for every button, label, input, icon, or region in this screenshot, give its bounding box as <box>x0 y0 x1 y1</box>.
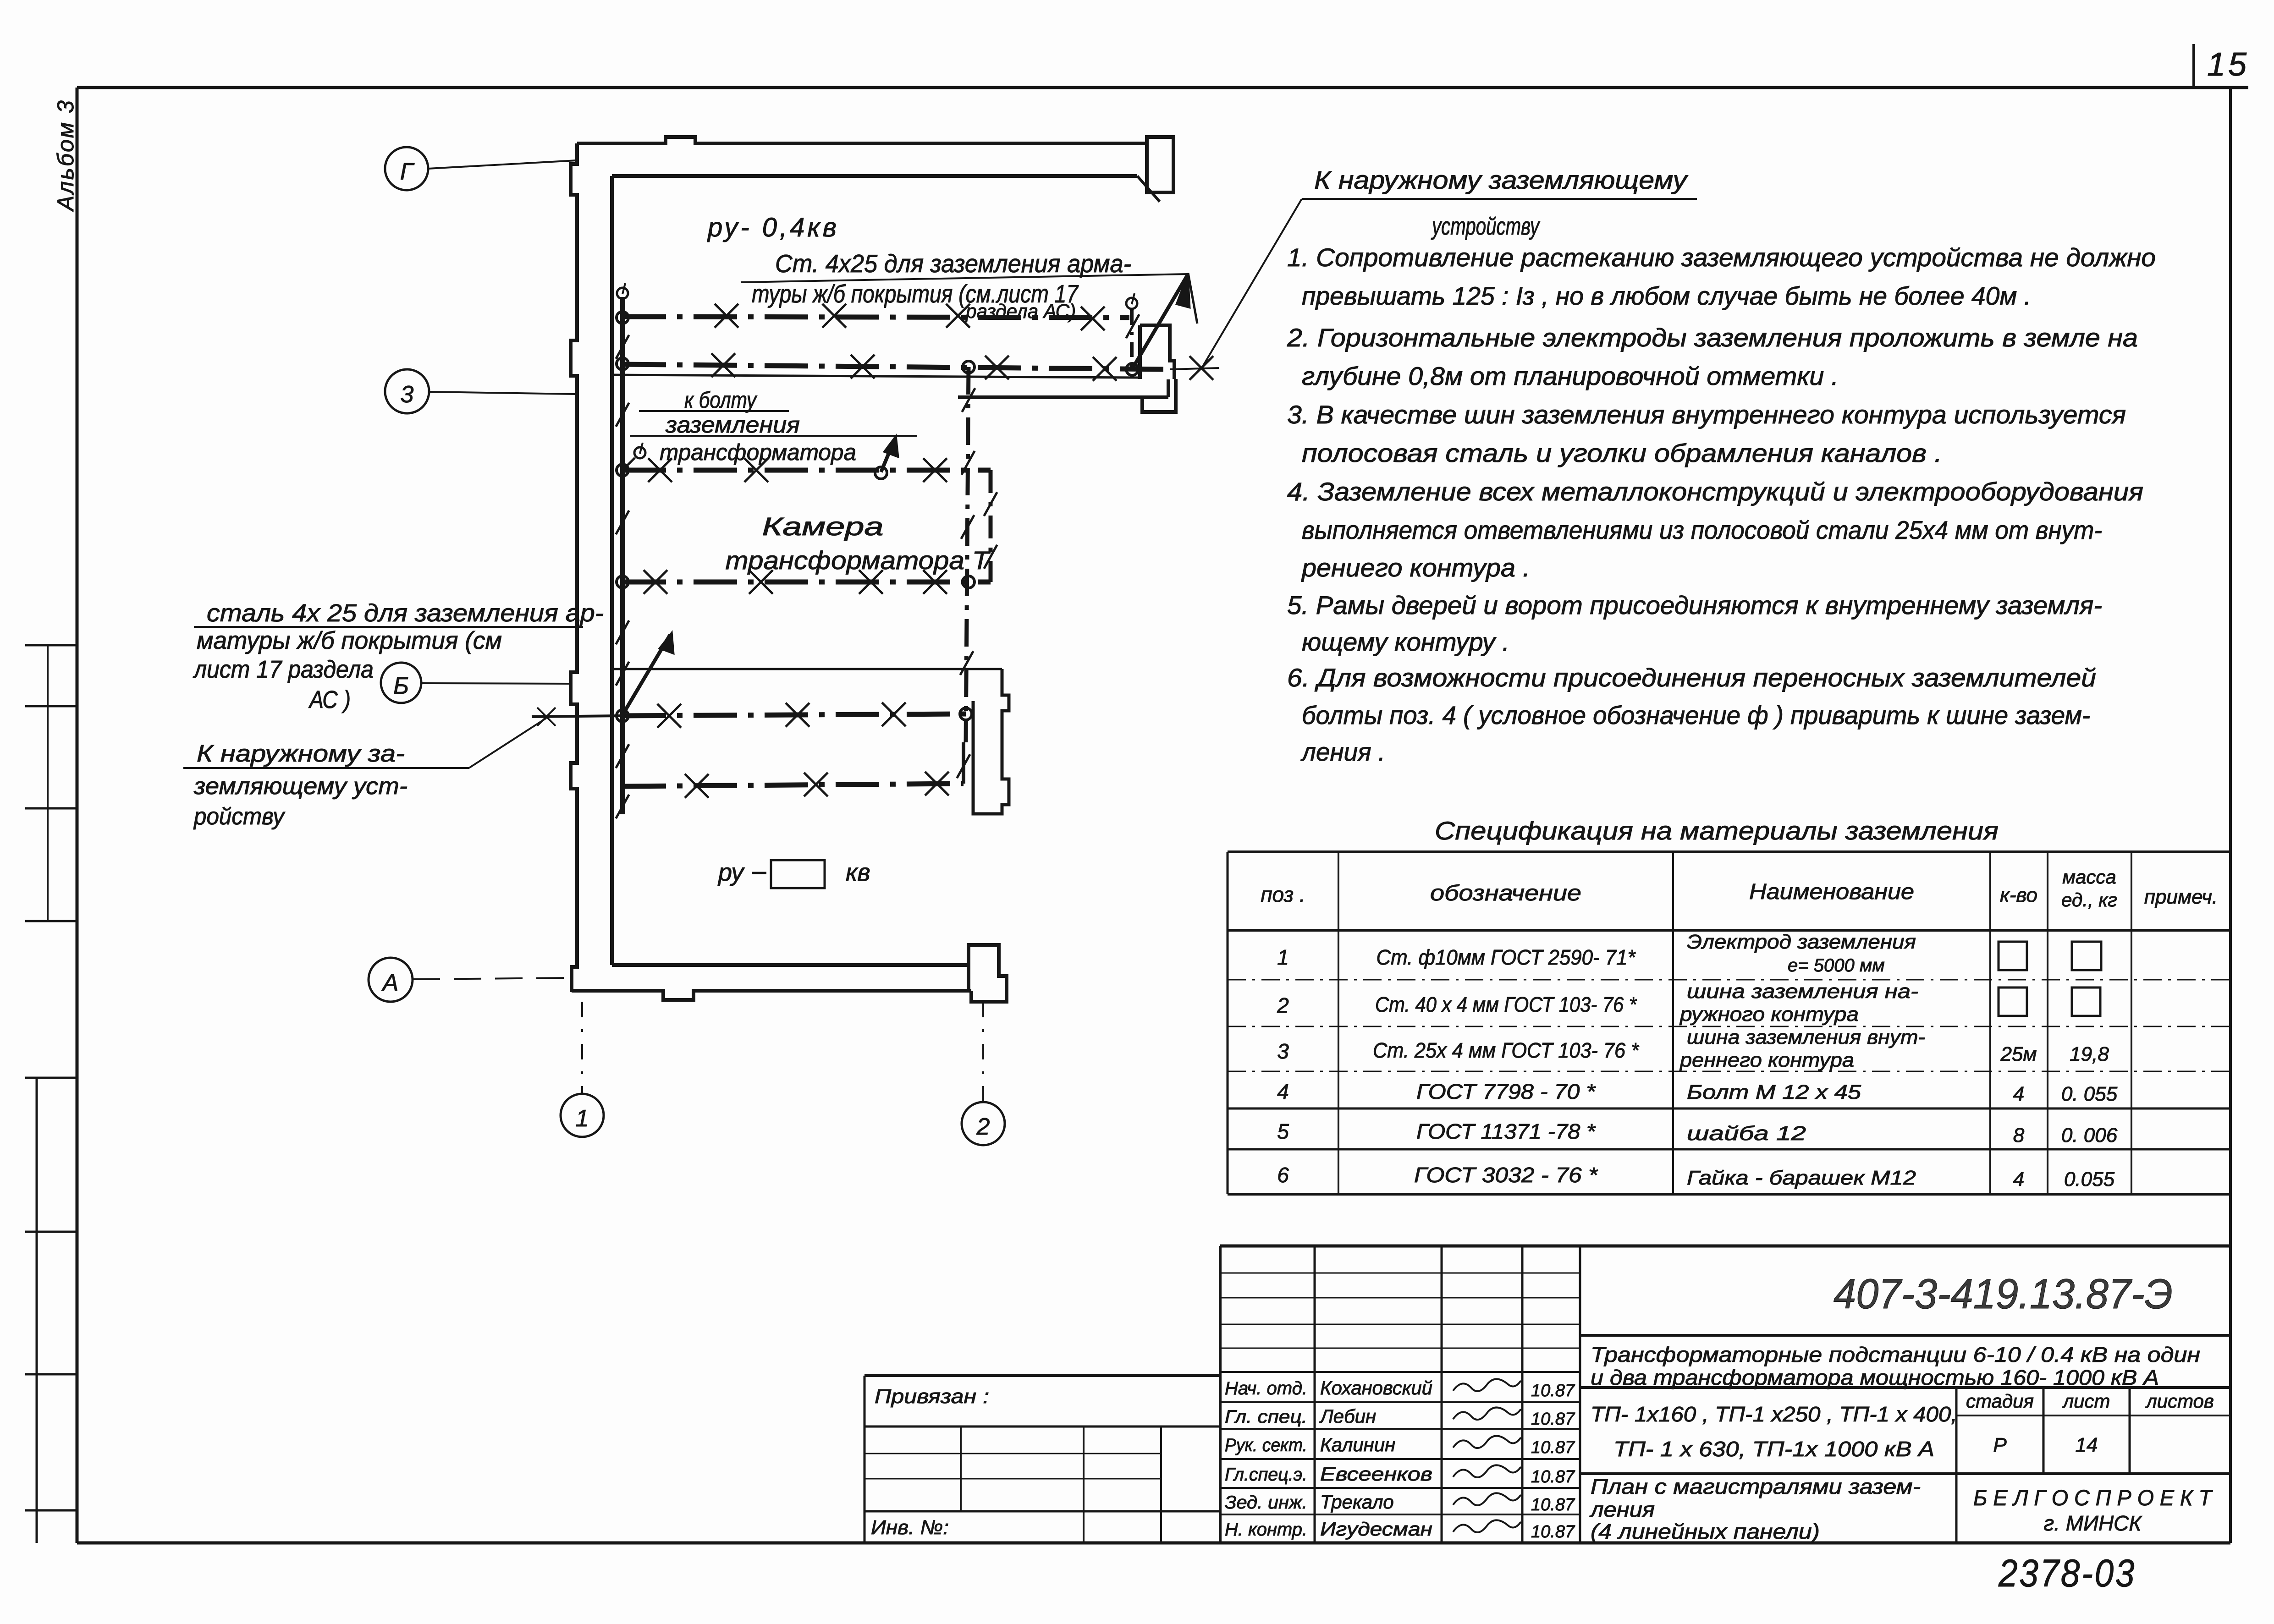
svg-text:ГОСТ 11371 -78 *: ГОСТ 11371 -78 * <box>1416 1119 1596 1143</box>
svg-text:обозначение: обозначение <box>1430 881 1581 905</box>
svg-text:заземления: заземления <box>665 412 800 438</box>
svg-text:407-3-419.13.87-Э: 407-3-419.13.87-Э <box>1834 1271 2173 1317</box>
bolt symbol at R1 right end <box>1126 293 1137 309</box>
svg-text:глубине 0,8м от планировочно: глубине 0,8м от планировочной отметки . <box>1302 362 1839 390</box>
svg-text:Привязан :: Привязан : <box>875 1385 989 1408</box>
svg-text:ройству: ройству <box>193 803 286 830</box>
svg-text:поз .: поз . <box>1261 883 1305 906</box>
svg-text:0.055: 0.055 <box>2064 1168 2115 1191</box>
svg-text:листов: листов <box>2145 1390 2214 1412</box>
svg-text:Ст. 4х25 для заземления арма-: Ст. 4х25 для заземления арма- <box>775 249 1131 278</box>
svg-text:матуры ж/б покрытия (см: матуры ж/б покрытия (см <box>197 627 502 654</box>
svg-text:Гл.спец.э.: Гл.спец.э. <box>1225 1465 1307 1485</box>
note line 12 <box>1287 663 2096 692</box>
svg-text:2. Горизонтальные электроды: 2. Горизонтальные электроды заземления п… <box>1287 323 2138 352</box>
svg-text:Трекало: Трекало <box>1320 1491 1394 1513</box>
svg-text:10.87: 10.87 <box>1531 1410 1575 1429</box>
svg-text:ления .: ления . <box>1300 737 1385 766</box>
svg-text:полосовая сталь и уголки об: полосовая сталь и уголки обрамления кана… <box>1302 439 1942 467</box>
spec row 1 <box>1277 931 2101 976</box>
wall: right wing bottom outer <box>958 379 1168 397</box>
wall: left inner <box>610 176 614 965</box>
note line 11 <box>1302 627 1509 656</box>
spec row 5 <box>1277 1119 2117 1147</box>
label к наружному заземляющему устройству (top right) <box>1201 165 1697 369</box>
note line 2 <box>1302 281 2031 310</box>
svg-text:ру- 0,4кв: ру- 0,4кв <box>707 213 839 242</box>
organization <box>1973 1486 2213 1535</box>
svg-text:ружного контура: ружного контура <box>1679 1003 1859 1026</box>
svg-text:шина заземления на-: шина заземления на- <box>1687 980 1918 1003</box>
label steel 4x25 (left) <box>193 599 604 713</box>
wall: RU room bottom partition <box>612 375 1140 378</box>
axis leader Б <box>421 683 573 684</box>
spec table grid <box>1228 852 2230 1194</box>
svg-text:План с магистралями зазем-: План с магистралями зазем- <box>1591 1475 1921 1498</box>
note line 3 <box>1287 323 2138 352</box>
wall: bottom-right pilaster <box>969 945 1007 1002</box>
svg-text:Зед. инж.: Зед. инж. <box>1225 1492 1307 1513</box>
axis leader З <box>429 392 575 394</box>
svg-text:ления: ления <box>1589 1498 1655 1521</box>
svg-text:10.87: 10.87 <box>1531 1495 1575 1514</box>
wall: bottom outer with bump <box>572 991 971 1000</box>
svg-text:Р: Р <box>1993 1434 2007 1456</box>
svg-text:Ст. 25х 4 мм ГОСТ 103- 76 *: Ст. 25х 4 мм ГОСТ 103- 76 * <box>1373 1038 1640 1062</box>
svg-text:Нач. отд.: Нач. отд. <box>1225 1378 1307 1399</box>
svg-text:Калинин: Калинин <box>1320 1434 1395 1455</box>
note line 5 <box>1287 400 2126 429</box>
label РУ-[] кВ (bottom) <box>717 859 870 888</box>
branch arrow to slab reinforcement (left) <box>622 632 674 716</box>
wall: right wing end box <box>1140 325 1174 379</box>
svg-text:рениего контура .: рениего контура . <box>1301 553 1530 582</box>
svg-text:1: 1 <box>576 1105 589 1132</box>
svg-text:стадия: стадия <box>1966 1390 2034 1412</box>
svg-text:ГОСТ 7798 - 70 *: ГОСТ 7798 - 70 * <box>1416 1080 1596 1103</box>
label Камера трансформатора Т <box>726 512 991 575</box>
title text TP list <box>1591 1402 1957 1461</box>
axis circle Г <box>385 147 428 190</box>
svg-text:3: 3 <box>401 381 414 408</box>
svg-text:кв: кв <box>846 859 870 886</box>
page number tick <box>2192 44 2195 88</box>
svg-text:2378-03: 2378-03 <box>1998 1552 2136 1595</box>
bolt symbol near transformer bolt label <box>622 443 645 470</box>
note line 13 <box>1302 701 2090 730</box>
svg-text:10.87: 10.87 <box>1531 1522 1575 1542</box>
svg-text:к-во: к-во <box>2000 884 2037 906</box>
wall: bottom inner <box>612 963 969 967</box>
axis leader А <box>413 978 571 979</box>
wall: lower room right wall with bumps <box>973 669 1009 814</box>
svg-text:(4 линейных панели): (4 линейных панели) <box>1591 1520 1820 1543</box>
svg-text:болты поз. 4 ( условное обо: болты поз. 4 ( условное обозначение ф ) … <box>1302 701 2090 730</box>
title block row Зед. инж. <box>1225 1491 1575 1514</box>
svg-text:4: 4 <box>1277 1080 1289 1103</box>
svg-text:Камера: Камера <box>762 512 884 541</box>
left margin column <box>25 645 77 1543</box>
svg-text:лист 17 раздела: лист 17 раздела <box>193 656 374 683</box>
spec row 3 <box>1277 1026 2109 1071</box>
svg-text:10.87: 10.87 <box>1531 1381 1575 1400</box>
svg-text:К наружному за-: К наружному за- <box>197 741 405 767</box>
ground bus R3 (chamber top) <box>617 458 991 482</box>
ground bus R1 (horizontal) <box>617 304 1129 330</box>
svg-text:8: 8 <box>2013 1124 2025 1147</box>
spec table title <box>1435 816 1999 845</box>
label к наружному (left) <box>183 718 546 830</box>
svg-text:10.87: 10.87 <box>1531 1438 1575 1457</box>
svg-text:Кохановский: Кохановский <box>1320 1377 1432 1399</box>
svg-text:Трансформаторные подстанции: Трансформаторные подстанции 6-10 / 0.4 к… <box>1591 1343 2200 1366</box>
svg-text:Лебин: Лебин <box>1319 1405 1376 1427</box>
svg-text:Электрод заземления: Электрод заземления <box>1687 931 1916 953</box>
svg-text:Ст. ф10мм ГОСТ 2590- 71*: Ст. ф10мм ГОСТ 2590- 71* <box>1377 945 1636 969</box>
svg-text:трансформатора Т: трансформатора Т <box>726 546 991 575</box>
svg-text:ТП- 1 х 630, ТП-1х 1000 кВ: ТП- 1 х 630, ТП-1х 1000 кВ А <box>1613 1437 1934 1461</box>
bus riser VL (left vertical) <box>616 297 629 818</box>
svg-text:Гайка - барашек М12: Гайка - барашек М12 <box>1687 1167 1916 1189</box>
svg-text:3: 3 <box>1277 1039 1289 1063</box>
axis circle 2 <box>962 1102 1005 1145</box>
ground bus R5 (horizontal, to external left) <box>617 702 972 728</box>
axis circle З <box>385 369 429 413</box>
wall: left outer with pilaster bumps <box>571 143 577 992</box>
svg-text:4. Заземление всех металлок: 4. Заземление всех металлоконструкций и … <box>1287 477 2143 506</box>
svg-text:19,8: 19,8 <box>2070 1043 2109 1065</box>
svg-text:1: 1 <box>1277 945 1289 969</box>
wall: top-right pilaster <box>1147 137 1173 192</box>
svg-text:к болту: к болту <box>684 387 758 413</box>
svg-text:реннего контура: реннего контура <box>1679 1049 1854 1071</box>
label РУ-0,4кВ <box>707 213 839 242</box>
bus riser V2 (chamber right) <box>984 470 997 582</box>
svg-text:выполняется ответвлениями из: выполняется ответвлениями из полосовой с… <box>1302 516 2102 544</box>
page number 15 <box>2207 46 2249 83</box>
svg-text:10.87: 10.87 <box>1531 1467 1575 1487</box>
title block row Гл.спец.э. <box>1225 1463 1575 1487</box>
svg-text:трансформатора: трансформатора <box>660 439 856 465</box>
title block row Гл. спец. <box>1225 1405 1575 1429</box>
archive number 2378-03 <box>1998 1552 2136 1595</box>
axis circle 1 <box>561 1094 604 1137</box>
axis circle Б <box>381 663 421 703</box>
svg-text:лист: лист <box>2061 1390 2110 1412</box>
title block grid <box>1220 1246 2230 1543</box>
svg-text:Н. контр.: Н. контр. <box>1225 1520 1307 1540</box>
spec table header <box>1261 866 2218 911</box>
stage/sheet header <box>1966 1390 2214 1456</box>
svg-text:Г: Г <box>400 159 415 185</box>
axis line 2 <box>982 1002 984 1102</box>
svg-text:0. 055: 0. 055 <box>2061 1083 2118 1105</box>
note line 8 <box>1302 516 2102 544</box>
axis leader Г <box>428 160 577 169</box>
svg-text:2: 2 <box>976 1114 990 1140</box>
note line 7 <box>1287 477 2143 506</box>
branch arrow to transformer bolt <box>875 435 898 479</box>
svg-text:e= 5000 мм: e= 5000 мм <box>1788 955 1885 976</box>
ground bus R6 (bottom room) <box>622 742 970 798</box>
svg-text:Б Е Л Г О С П Р О Е К Т: Б Е Л Г О С П Р О Е К Т <box>1973 1486 2213 1510</box>
svg-text:ТП- 1х160 , ТП-1 х250 , ТП-1: ТП- 1х160 , ТП-1 х250 , ТП-1 х 400, <box>1591 1402 1957 1426</box>
svg-text:земляющему уст-: земляющему уст- <box>193 773 407 800</box>
ground bus R2 (horizontal, to external) <box>617 353 1219 381</box>
album label (rotated) <box>53 99 78 212</box>
bolt symbol at VL top <box>617 283 628 299</box>
svg-text:устройству: устройству <box>1431 213 1540 240</box>
svg-text:К наружному заземляющему: К наружному заземляющему <box>1314 165 1688 194</box>
svg-text:25м: 25м <box>2000 1043 2037 1065</box>
note line 6 <box>1302 439 1942 467</box>
svg-text:4: 4 <box>2013 1083 2024 1105</box>
note line 14 <box>1300 737 1385 766</box>
spec row 6 <box>1277 1163 2114 1191</box>
title text object <box>1591 1343 2200 1389</box>
svg-text:г. МИНСК: г. МИНСК <box>2043 1511 2142 1535</box>
svg-text:Ст. 40 х 4 мм ГОСТ 103- 76 *: Ст. 40 х 4 мм ГОСТ 103- 76 * <box>1375 993 1637 1016</box>
axis circle А <box>369 958 413 1002</box>
title block row Нач. отд. <box>1225 1377 1575 1400</box>
bus riser VR (right vertical) <box>960 367 975 742</box>
spec row 2 <box>1277 980 2100 1026</box>
svg-text:0. 006: 0. 006 <box>2061 1124 2118 1147</box>
svg-text:Игудесман: Игудесман <box>1320 1518 1432 1540</box>
svg-text:Рук. сект.: Рук. сект. <box>1225 1435 1307 1455</box>
svg-text:3. В качестве шин заземлени: 3. В качестве шин заземления внутреннего… <box>1287 400 2126 429</box>
note line 4 <box>1302 362 1839 390</box>
wall: top inner <box>612 174 1137 178</box>
ground bus R4 (chamber bottom) <box>617 570 991 594</box>
sheet title <box>1589 1475 1921 1543</box>
svg-text:Инв. №:: Инв. №: <box>871 1516 949 1539</box>
svg-text:5: 5 <box>1277 1119 1289 1143</box>
svg-text:Б: Б <box>393 673 409 699</box>
svg-text:шина заземления внут-: шина заземления внут- <box>1687 1026 1925 1048</box>
label steel 4x25 (top) <box>741 249 1188 323</box>
svg-text:АС ): АС ) <box>308 686 351 713</box>
bus riser between R1 and R2 <box>1126 310 1140 367</box>
note line 10 <box>1287 591 2102 620</box>
external grounding conductor (left) <box>532 708 622 726</box>
svg-text:15: 15 <box>2207 46 2249 83</box>
svg-text:шайба 12: шайба 12 <box>1687 1122 1806 1145</box>
svg-text:Евсеенков: Евсеенков <box>1320 1463 1432 1485</box>
wall: top-right inner corner diagonal <box>1137 176 1160 202</box>
svg-text:6: 6 <box>1277 1163 1289 1187</box>
svg-text:Гл. спец.: Гл. спец. <box>1225 1407 1307 1427</box>
branch arrow to slab reinforcement (right) <box>1132 273 1197 369</box>
title block row Н. контр. <box>1225 1518 1575 1542</box>
axis line 1 <box>581 1002 583 1094</box>
svg-text:и два трансформатора мощност: и два трансформатора мощностью 160- 1000… <box>1591 1366 2159 1389</box>
svg-text:1. Сопротивление растеканию: 1. Сопротивление растеканию заземляющего… <box>1287 243 2156 272</box>
svg-text:Спецификация на материалы з: Спецификация на материалы заземления <box>1435 816 1999 845</box>
svg-text:ру: ру <box>717 859 745 886</box>
label к болту заземления трансформатора <box>630 387 917 465</box>
note line 1 <box>1287 243 2156 272</box>
document number stamp <box>1834 1271 2173 1317</box>
svg-text:раздела АС).: раздела АС). <box>965 300 1081 323</box>
svg-text:ГОСТ 3032 - 76 *: ГОСТ 3032 - 76 * <box>1414 1163 1598 1187</box>
svg-text:4: 4 <box>2013 1168 2024 1191</box>
svg-text:примеч.: примеч. <box>2144 886 2218 908</box>
svg-text:ющему контуру .: ющему контуру . <box>1302 627 1509 656</box>
wall: lower room partition top <box>612 668 1002 670</box>
svg-text:ед., кг: ед., кг <box>2061 889 2117 911</box>
svg-text:Болт М 12 х 45: Болт М 12 х 45 <box>1687 1081 1861 1103</box>
svg-text:14: 14 <box>2076 1434 2098 1456</box>
svg-text:Наименование: Наименование <box>1749 880 1914 904</box>
svg-text:2: 2 <box>1277 993 1289 1017</box>
spec row 4 <box>1277 1080 2117 1105</box>
svg-text:5. Рамы дверей и ворот прис: 5. Рамы дверей и ворот присоединяются к … <box>1287 591 2102 620</box>
wall: top outer with pilaster bump <box>577 137 1147 143</box>
svg-text:сталь 4х 25 для заземления ар-: сталь 4х 25 для заземления ар- <box>207 599 604 627</box>
wall: right wing end step <box>1142 379 1176 412</box>
title block row Рук. сект. <box>1225 1434 1575 1457</box>
linked-project box (Привязан) <box>864 1376 1220 1543</box>
svg-text:А: А <box>381 970 399 996</box>
svg-text:превышать 125 : Iз , но в любо: превышать 125 : Iз , но в любом случае б… <box>1302 281 2031 310</box>
svg-text:масса: масса <box>2062 866 2116 888</box>
note line 9 <box>1301 553 1530 582</box>
svg-text:6. Для возможности присоеди: 6. Для возможности присоединения перенос… <box>1287 663 2096 692</box>
svg-text:Альбом 3: Альбом 3 <box>53 99 78 212</box>
